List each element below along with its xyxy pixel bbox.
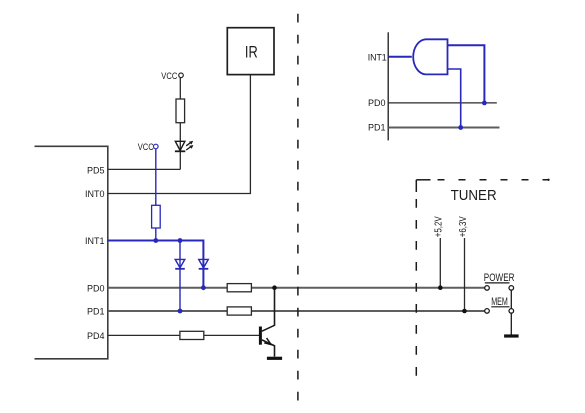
- svg-text:+6,3V: +6,3V: [458, 216, 469, 237]
- svg-text:VCC: VCC: [138, 142, 154, 152]
- svg-text:INT0: INT0: [85, 189, 105, 199]
- svg-text:PD1: PD1: [87, 307, 105, 317]
- svg-text:INT1: INT1: [85, 236, 105, 246]
- svg-text:+5,2V: +5,2V: [434, 216, 445, 237]
- svg-text:PD0: PD0: [368, 98, 386, 108]
- svg-text:PD0: PD0: [87, 283, 105, 293]
- svg-text:PD1: PD1: [368, 122, 386, 132]
- svg-text:INT1: INT1: [368, 53, 387, 63]
- svg-text:VCC: VCC: [161, 71, 177, 81]
- svg-text:PD5: PD5: [87, 166, 105, 176]
- svg-text:TUNER: TUNER: [451, 188, 497, 204]
- svg-text:IR: IR: [245, 44, 258, 62]
- svg-text:PD4: PD4: [87, 331, 105, 341]
